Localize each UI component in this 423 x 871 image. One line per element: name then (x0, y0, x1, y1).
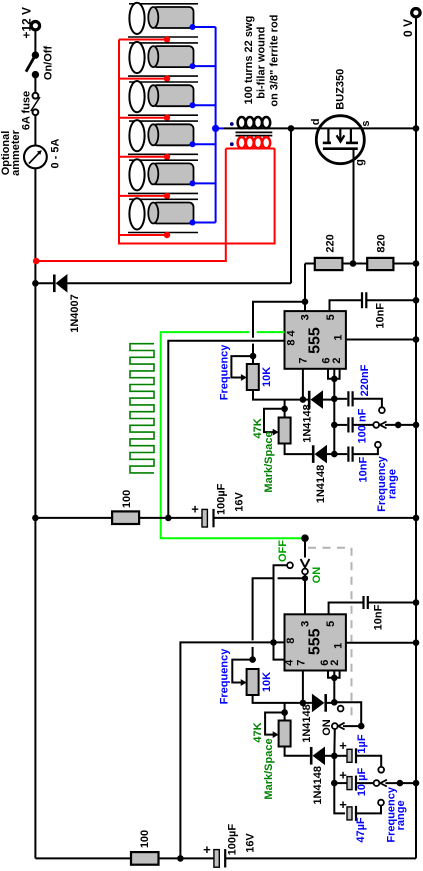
svg-text:range: range (395, 800, 407, 830)
wire pin3 node to 220 (304, 264, 306, 312)
selector arm frequency range 1 (380, 422, 419, 429)
terminal +12V (31, 22, 39, 30)
node pin1 to rail (413, 336, 420, 343)
node blue bus to choke (212, 125, 219, 132)
switch S2 gate select (253, 538, 310, 659)
svg-text:10nF: 10nF (358, 456, 370, 482)
node gating switch common (green end) (301, 534, 309, 542)
svg-text:3: 3 (299, 621, 311, 627)
capacitor C10 100uF 16V (2) (203, 842, 225, 868)
node gate resistor junction (350, 260, 357, 267)
svg-text:7: 7 (296, 660, 308, 666)
node red supply junction (33, 258, 40, 265)
svg-text:4: 4 (284, 659, 296, 666)
node 10nF to rail (413, 297, 420, 304)
node supply junction 1 (165, 515, 172, 522)
svg-text:1N4148: 1N4148 (301, 704, 313, 743)
diode D3 1N4148 (312, 445, 334, 464)
wire column 2 lower (334, 729, 345, 813)
resistor R1 220 (305, 258, 367, 270)
svg-text:d: d (310, 119, 322, 126)
node diode/220nF row (331, 396, 338, 403)
capacitor C9 10nF 2 (364, 596, 417, 609)
switch S1 On/Off (26, 51, 39, 78)
cell 1 (119, 3, 216, 43)
svg-text:0 V: 0 V (401, 19, 415, 37)
svg-text:100 turns 22 swg: 100 turns 22 swg (243, 16, 255, 105)
node supply 2 to pin4 jumper (270, 639, 277, 646)
capacitor C3 100nF (334, 417, 379, 432)
node pin6/2 join (331, 376, 338, 383)
svg-text:Mark/Space: Mark/Space (263, 431, 275, 492)
svg-text:5: 5 (325, 621, 337, 627)
wire blue cell bus (215, 27, 217, 223)
ammeter M1 (24, 146, 47, 169)
svg-text:on 3/8" ferrite rod: on 3/8" ferrite rod (269, 15, 281, 107)
capacitor C7 10uF (334, 768, 379, 791)
MOSFET Q1 BUZ350 (291, 116, 416, 264)
wire pin1 2 to rail (346, 642, 416, 644)
svg-text:1N4148: 1N4148 (312, 766, 324, 805)
svg-text:g: g (354, 159, 366, 166)
node source to rail (413, 125, 420, 132)
svg-text:10nF: 10nF (374, 303, 386, 329)
svg-text:OFF: OFF (277, 540, 289, 562)
node 10nF 2 to rail (413, 599, 420, 606)
node 820 to rail (413, 260, 420, 267)
svg-text:220: 220 (324, 234, 336, 252)
svg-text:2: 2 (329, 660, 341, 666)
svg-text:range: range (386, 469, 398, 499)
dashed gang link (308, 548, 352, 721)
svg-text:100: 100 (121, 490, 133, 508)
diode D1 1N4007 (35, 274, 291, 293)
capacitor C8 47uF (339, 797, 384, 821)
resistor R4 100 (2) (131, 852, 159, 865)
cell 6 (119, 198, 216, 238)
svg-text:bi-filar wound: bi-filar wound (255, 27, 267, 99)
svg-text:+: + (339, 797, 347, 812)
pot VR2 47K Mark/Space (264, 400, 312, 455)
wire pin6 stub 2 (328, 671, 340, 678)
pot VR4 47K Mark/Space 2 (265, 703, 310, 756)
node pin7 junction (300, 396, 307, 403)
svg-text:7: 7 (298, 357, 310, 363)
wire pin1 to rail (346, 339, 416, 341)
wire pin3 to gating switch line (253, 302, 305, 364)
svg-text:+: + (339, 768, 347, 783)
svg-text:1N4148: 1N4148 (315, 465, 327, 504)
node 10nF row / diode row (331, 451, 338, 458)
switch S2 pole 2 (332, 706, 365, 730)
diode D5 1N4148 (310, 747, 334, 766)
svg-text:8: 8 (285, 638, 297, 644)
choke phase dot red winding (230, 142, 234, 146)
wire red supply to choke primary (36, 149, 226, 262)
capacitor C1 10nF (362, 292, 416, 308)
cell 3 (119, 81, 216, 121)
svg-text:3: 3 (299, 314, 311, 320)
node pin7 junction 2 (300, 700, 307, 707)
node 100nF row (331, 422, 338, 429)
water fuel cell tubes (6 pairs) (119, 3, 216, 238)
svg-text:100µF: 100µF (216, 483, 228, 515)
wire pin2 column (333, 369, 335, 454)
wire pin8 supply line (168, 341, 284, 518)
cell 2 (119, 42, 216, 82)
selector arm frequency range 2 (380, 780, 419, 787)
wire pin5 to 10nF 2 (329, 603, 364, 615)
svg-text:555: 555 (306, 327, 323, 354)
pot VR3 10K Frequency 2 (232, 656, 303, 703)
svg-text:1: 1 (333, 643, 345, 649)
svg-text:Mark/Space: Mark/Space (263, 738, 275, 799)
node supply line 1 to rail (413, 515, 420, 522)
cell 5 (119, 159, 216, 199)
IC U1 555 (285, 311, 346, 369)
svg-text:16V: 16V (234, 492, 246, 512)
svg-text:100: 100 (139, 830, 151, 848)
pot VR1 10K Frequency (231, 353, 303, 400)
node 10uF row (331, 780, 338, 787)
wire pin7 stub 2 (302, 671, 304, 703)
svg-text:Frequency: Frequency (218, 648, 230, 705)
node supply junction 2 (177, 855, 184, 862)
node pin3 junction (302, 298, 309, 305)
choke phase dot black winding (230, 122, 234, 126)
wire choke junction down to diode wire (290, 128, 292, 283)
cell 4 (119, 120, 216, 160)
svg-text:1µF: 1µF (356, 734, 368, 753)
green square wave symbol (130, 344, 154, 473)
svg-text:ammeter: ammeter (10, 129, 22, 176)
svg-text:1N4007: 1N4007 (69, 294, 81, 333)
diode D2 1N4148 (303, 390, 334, 409)
svg-text:820: 820 (375, 234, 387, 252)
wire pin6 stub (328, 369, 340, 379)
svg-text:2: 2 (331, 357, 343, 363)
svg-text:On/Off: On/Off (43, 46, 55, 81)
wire pin2 column 2 upper (333, 671, 335, 703)
node supply line 1 left rail (32, 515, 39, 522)
capacitor C4 10nF (334, 442, 381, 462)
wire green reset pin4 (161, 332, 305, 538)
wire pin4 jumper (274, 642, 285, 659)
bifilar choke L1 black winding (224, 117, 291, 128)
capacitor C5 100uF 16V (191, 502, 213, 528)
node choke to drain junction (288, 125, 295, 132)
svg-text:ON: ON (311, 567, 323, 584)
svg-text:+: + (191, 502, 199, 517)
node pin6/2 join 2 (331, 675, 338, 682)
bifilar choke L1 red winding (226, 137, 275, 148)
svg-text:555: 555 (306, 628, 323, 655)
choke core (236, 132, 273, 135)
IC U2 555 (284, 614, 346, 670)
wire right 0V rail (415, 18, 417, 858)
svg-text:47µF: 47µF (355, 817, 367, 843)
svg-text:16V: 16V (244, 833, 256, 853)
wire supply line 1 (35, 517, 416, 519)
wire red cell bus (119, 40, 275, 244)
node diode junction on left rail (32, 280, 39, 287)
wire column detour to switch pole 2 (334, 702, 361, 726)
svg-text:8 4: 8 4 (285, 329, 297, 345)
svg-text:1N4148: 1N4148 (301, 404, 313, 443)
capacitor C6 1uF (334, 738, 384, 773)
node pin1 2 to rail (413, 639, 420, 646)
svg-text:+: + (203, 842, 211, 857)
svg-text:220nF: 220nF (359, 364, 371, 396)
resistor R2 820 (367, 258, 416, 270)
resistor R3 100 (112, 511, 139, 524)
svg-text:10K: 10K (261, 672, 273, 692)
svg-text:+: + (339, 738, 347, 753)
diode D4 1N4148 (303, 694, 334, 713)
svg-text:10 µF: 10 µF (356, 768, 368, 797)
wire pin7 stub (302, 369, 304, 400)
node diode row 2 (331, 699, 338, 706)
svg-text:100 nF: 100 nF (357, 408, 369, 443)
svg-text:ON: ON (321, 719, 333, 736)
wire pin8 supply line 2 (180, 642, 284, 858)
svg-text:6A fuse: 6A fuse (21, 91, 33, 130)
fuse F1 6A (31, 93, 40, 115)
svg-text:0 - 5A: 0 - 5A (50, 138, 62, 168)
svg-text:100µF: 100µF (227, 824, 239, 856)
svg-text:10K: 10K (261, 367, 273, 387)
node 1uF row (331, 753, 338, 760)
capacitor C2 220nF (334, 391, 385, 413)
wire pin5 to 10nF (330, 300, 363, 311)
svg-text:s: s (360, 120, 372, 126)
svg-text:10nF: 10nF (373, 604, 385, 630)
terminal 0V (412, 9, 420, 17)
svg-text:5: 5 (325, 314, 337, 320)
svg-text:1: 1 (333, 334, 345, 340)
wire blue bus to choke line (216, 127, 224, 129)
svg-text:BUZ350: BUZ350 (334, 69, 346, 110)
svg-text:+12 V: +12 V (20, 7, 34, 39)
svg-text:Frequency: Frequency (218, 344, 230, 401)
